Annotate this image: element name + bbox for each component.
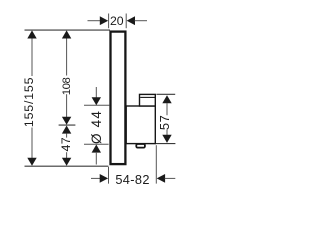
dim 57: top arrow bbox=[162, 95, 171, 103]
dim 54-82: arrow left-pointing bbox=[157, 174, 165, 183]
dim 108: bottom arrow bbox=[62, 117, 71, 125]
dim 57: bottom arrow bbox=[162, 135, 171, 143]
dim 20: lead left bbox=[88, 20, 101, 22]
dim Ø44: tail below bbox=[95, 152, 97, 165]
dim Ø44: tail above bbox=[95, 87, 97, 98]
svg-text:54-82: 54-82 bbox=[115, 172, 149, 187]
dim 108: line lower segment bbox=[66, 94, 68, 117]
svg-text:Ø 44: Ø 44 bbox=[89, 110, 104, 144]
svg-text:108: 108 bbox=[61, 77, 73, 95]
dim 108: line upper segment bbox=[66, 38, 68, 75]
plate (wall plate, side view) bbox=[111, 32, 126, 165]
svg-text:155/155: 155/155 bbox=[22, 77, 36, 127]
dim 20: left extension line bbox=[108, 14, 110, 29]
ref tick: 108/47 junction bbox=[59, 124, 76, 126]
dim 20: arrow right-pointing bbox=[100, 16, 108, 25]
svg-text:47: 47 bbox=[59, 137, 73, 151]
valve body bbox=[126, 106, 155, 144]
dim 54-82: left extension line bbox=[108, 167, 110, 184]
dim 155/155: line lower segment bbox=[31, 128, 33, 159]
dim 20: right extension line bbox=[125, 14, 127, 29]
bottom tab (check valve) bbox=[136, 144, 145, 148]
ref line: body bottom extended right bbox=[156, 143, 176, 145]
dim 20: arrow left-pointing bbox=[127, 16, 135, 25]
dim 47: line upper segment bbox=[66, 134, 68, 138]
dim 155/155: line upper segment bbox=[31, 38, 33, 76]
dim Ø44: bottom arrow pointing up bbox=[92, 145, 101, 153]
svg-text:57: 57 bbox=[157, 115, 172, 130]
dim 47: top arrow bbox=[62, 126, 71, 134]
dim 54-82: arrow right-pointing bbox=[100, 174, 108, 183]
dim 54-82: right extension line bbox=[155, 145, 157, 183]
dim 47: line lower segment bbox=[66, 152, 68, 158]
dim 155/155: top arrow bbox=[27, 30, 36, 38]
dim 108: top arrow bbox=[62, 30, 71, 38]
dim 20: lead right bbox=[135, 20, 147, 22]
dim 57: line lower segment bbox=[166, 130, 168, 135]
ref line: body top extended left bbox=[84, 104, 109, 106]
ref line: body bottom extended left bbox=[84, 143, 109, 145]
dim 47: bottom arrow bbox=[62, 158, 71, 166]
dim 155/155: bottom arrow bbox=[27, 158, 36, 166]
ref line: knob top extended right bbox=[156, 93, 175, 95]
dim 54-82: lead right bbox=[165, 177, 176, 179]
ref line: plate top extended left bbox=[25, 29, 111, 31]
ref line: plate bottom extended left bbox=[25, 165, 109, 167]
svg-text:20: 20 bbox=[110, 14, 124, 28]
knob (handle, side view) bbox=[140, 94, 156, 106]
dim 54-82: lead left bbox=[91, 177, 100, 179]
dim Ø44: top arrow pointing down bbox=[92, 97, 101, 105]
dim 57: line upper segment bbox=[166, 103, 168, 115]
knob inner line bbox=[140, 96, 155, 98]
